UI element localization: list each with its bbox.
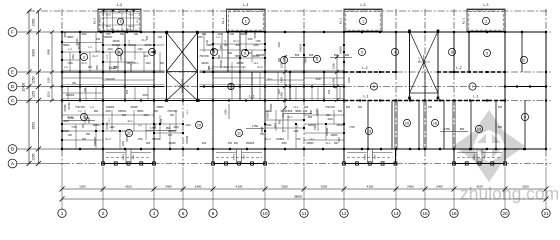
vertical grid line 1 [61,9,63,166]
beam label L-2 d [456,66,461,70]
svg-text:L1-1: L1-1 [108,117,111,122]
bottom dimension line (bays) [60,185,549,192]
svg-text:500: 500 [228,142,233,145]
svg-text:E: E [11,70,14,76]
svg-text:450: 450 [168,134,173,137]
svg-text:9#D06: 9#D06 [78,42,81,50]
svg-text:300: 300 [358,106,363,109]
svg-text:7#B06: 7#B06 [306,56,308,63]
top balcony 2 [221,3,266,31]
svg-text:3: 3 [486,51,488,55]
svg-text:7#B06A: 7#B06A [104,36,113,39]
svg-text:1750: 1750 [444,127,450,131]
svg-text:1150: 1150 [293,130,299,133]
svg-text:1750: 1750 [67,62,73,65]
vertical grid line 18 [453,9,455,166]
svg-text:L-2: L-2 [362,66,367,70]
svg-text:3200: 3200 [522,185,529,189]
svg-text:300: 300 [345,53,350,57]
svg-text:KL-1: KL-1 [221,18,225,25]
grid bubble D [8,82,17,91]
svg-text:L-2: L-2 [456,66,461,70]
svg-text:3000: 3000 [64,32,67,38]
svg-text:5: 5 [244,51,246,55]
svg-text:2#D08: 2#D08 [236,62,244,65]
beam label L-2 a [111,66,116,70]
svg-text:XL-1: XL-1 [133,62,139,65]
grid bubble 11 [300,209,308,217]
svg-text:1500: 1500 [348,77,351,83]
svg-text:L-3: L-3 [361,3,366,7]
svg-text:ZB2: ZB2 [126,89,129,94]
svg-text:11: 11 [237,131,241,135]
svg-text:2#D08: 2#D08 [130,106,138,109]
left dimension line [22,9,42,167]
svg-text:4100: 4100 [236,185,243,189]
watermark text zhulong.com [460,184,559,204]
svg-text:1: 1 [61,211,64,216]
svg-text:8#B06: 8#B06 [64,104,67,112]
svg-text:750X150: 750X150 [199,55,209,58]
svg-text:4100: 4100 [476,185,483,189]
bottom balcony 4 [453,149,507,165]
vertical grid line 4 [153,9,155,166]
svg-text:2400: 2400 [195,185,202,189]
horizontal grid line B [17,148,552,150]
vertical grid line 6 [182,9,184,166]
svg-text:1250: 1250 [47,77,51,83]
vertical grid line 8 [212,9,214,166]
svg-text:950: 950 [498,126,503,129]
svg-text:7B06: 7B06 [128,15,134,17]
svg-text:9: 9 [524,115,526,119]
svg-text:450: 450 [230,33,235,36]
svg-text:ZB2: ZB2 [94,110,99,113]
panel number circle 2 at 524,60 [520,56,527,63]
svg-text:L1-1: L1-1 [310,138,315,141]
small horizontal dims mid band [63,104,468,133]
svg-text:300: 300 [228,52,233,55]
vertical grid line 12 [343,9,345,166]
svg-text:L-2: L-2 [109,65,116,70]
svg-text:XL-1: XL-1 [325,142,331,145]
svg-text:1050: 1050 [281,142,287,145]
panel number circle 3 at 119,52 [115,48,122,55]
svg-text:D06: D06 [144,55,149,58]
grid bubble C [8,96,17,105]
bottom dimension line (total) [60,195,549,202]
svg-text:1150: 1150 [137,48,143,51]
drain symbol on D line [228,83,234,89]
svg-text:KL-3: KL-3 [265,138,271,141]
svg-text:1240: 1240 [133,154,135,160]
panel number circle 5 at 245,53 [241,49,248,56]
svg-text:1050: 1050 [72,54,75,60]
svg-text:L-3: L-3 [484,3,489,7]
svg-text:1240: 1240 [244,154,246,160]
grid bubble 12 [340,209,348,217]
svg-text:2#D08: 2#D08 [112,40,120,43]
svg-text:L-1: L-1 [473,94,478,98]
svg-text:10#D6: 10#D6 [123,153,125,160]
svg-text:1000: 1000 [315,78,321,81]
grid bubble 8 [209,209,217,217]
svg-text:1450: 1450 [332,78,336,84]
svg-text:300: 300 [303,109,308,113]
svg-text:450: 450 [82,123,85,128]
top balcony 1 interior framing [98,10,141,32]
svg-text:950: 950 [154,110,159,113]
svg-text:800: 800 [460,127,465,131]
columns on line F [61,31,547,33]
svg-text:1060: 1060 [197,36,203,39]
exterior wall on line F [62,31,546,33]
svg-text:D06: D06 [304,106,309,109]
svg-text:1240: 1240 [278,89,281,95]
panel number circle 10 at 407,123 [403,119,410,126]
svg-text:ZB2: ZB2 [160,118,163,123]
vertical grid line 11 [303,9,305,166]
svg-text:10#B06: 10#B06 [130,63,133,72]
svg-text:1200: 1200 [32,153,36,161]
svg-text:3200: 3200 [281,185,288,189]
svg-text:1150: 1150 [225,109,228,115]
panel number circle 5 at 362,52 [358,48,365,55]
stairwell 1 (X braces) [165,31,199,102]
svg-text:KL-3: KL-3 [257,66,263,69]
svg-text:10#D6: 10#D6 [364,153,366,160]
svg-text:500: 500 [84,87,87,92]
top balcony 1 [93,3,142,31]
svg-text:1000: 1000 [327,118,333,121]
svg-text:5#B06: 5#B06 [254,31,257,39]
svg-text:950: 950 [86,133,91,136]
svg-text:7#B06A: 7#B06A [118,110,127,113]
right half annotation texts [278,42,503,129]
svg-text:L-3: L-3 [243,3,248,7]
svg-text:13: 13 [477,127,481,131]
svg-text:1240: 1240 [374,154,376,160]
svg-text:16#D06: 16#D06 [106,106,115,109]
svg-text:7B06: 7B06 [105,15,111,17]
svg-text:KL-1: KL-1 [418,57,421,63]
svg-text:500: 500 [154,123,157,128]
svg-text:1750: 1750 [255,40,261,43]
svg-text:750X150: 750X150 [105,78,115,81]
svg-text:10#D6: 10#D6 [474,153,476,160]
vertical grid line 2 [102,9,104,166]
svg-text:ZB2: ZB2 [308,116,313,119]
svg-text:750X150: 750X150 [325,106,335,109]
svg-text:4: 4 [151,50,153,54]
svg-text:1150: 1150 [109,126,115,129]
svg-text:9B06: 9B06 [128,26,134,28]
wall on line C [61,99,506,102]
svg-text:7#B06: 7#B06 [137,110,145,113]
svg-text:1150: 1150 [47,91,51,97]
vertical grid line 14 [395,9,397,166]
svg-text:8#B06: 8#B06 [316,108,319,116]
panel number circle 11 at 239,133 [235,129,242,136]
horizontal grid line D [17,86,552,88]
svg-text:450: 450 [158,36,163,39]
grid bubble 10 [261,209,269,217]
svg-text:150: 150 [96,38,101,41]
grid bubble 4 [150,209,158,217]
svg-text:L1-1: L1-1 [106,54,109,59]
svg-text:KL-3: KL-3 [67,116,73,119]
svg-text:9#D06: 9#D06 [201,62,209,65]
vertical grid line 16 [424,9,426,166]
stairwell 2 (X brace) [408,30,439,100]
svg-text:F: F [11,30,14,36]
bottom balcony 1 [102,149,156,165]
svg-text:L-3: L-3 [117,3,122,7]
svg-text:12400: 12400 [22,83,26,92]
svg-text:11: 11 [302,211,307,216]
svg-text:500: 500 [146,35,149,40]
svg-text:1050: 1050 [247,38,253,41]
interior dim column at x=52 [47,30,55,102]
svg-text:76#D06: 76#D06 [341,45,343,54]
panel number circle 13 at 479,129 [475,125,482,132]
svg-text:8: 8 [212,211,215,216]
svg-text:10#B06: 10#B06 [276,138,285,141]
beam label L-2 c [362,66,367,70]
svg-text:10#B06: 10#B06 [126,133,129,142]
svg-text:8#B06: 8#B06 [157,106,165,109]
svg-text:950: 950 [120,33,125,36]
panel number circle 4 at 214,52 [210,48,217,55]
svg-text:XL-1: XL-1 [267,78,273,81]
svg-text:6: 6 [316,57,318,61]
svg-text:1: 1 [245,19,247,23]
svg-text:1240: 1240 [484,154,486,160]
beam label L-1 b [363,94,368,98]
svg-text:750X150: 750X150 [75,106,85,109]
columns on line B [61,148,547,150]
svg-text:7#B06A: 7#B06A [152,138,161,141]
svg-text:6: 6 [451,50,453,54]
svg-text:1240: 1240 [185,124,191,127]
svg-text:13: 13 [367,129,371,133]
svg-text:1250: 1250 [32,76,36,84]
grid bubble 20 [501,209,509,217]
panel number circle 6 at 317,59 [313,55,320,62]
top balcony 3 [339,3,383,31]
panel number circle 13 at 369,131 [365,127,372,134]
svg-text:8#B06: 8#B06 [207,44,215,47]
svg-text:10#B06: 10#B06 [120,52,123,61]
svg-text:2: 2 [102,211,105,216]
svg-text:4100: 4100 [125,185,132,189]
svg-text:1750: 1750 [295,138,301,141]
panel number circle 16 at 435,123 [431,119,438,126]
svg-text:1: 1 [485,19,487,23]
grid bubble E [8,68,17,77]
svg-text:150: 150 [122,114,127,117]
svg-text:500: 500 [498,106,503,109]
svg-text:1750: 1750 [252,124,258,128]
svg-text:1060: 1060 [81,33,87,36]
svg-text:10#D6: 10#D6 [330,134,338,137]
interior dim column at x=285 [280,55,288,110]
svg-text:950: 950 [88,66,93,69]
panel number circle 4 at 395,52 [391,48,398,55]
circled number on D line a [370,83,377,90]
svg-text:L1-1: L1-1 [186,109,189,114]
svg-text:10: 10 [197,123,201,127]
svg-text:KL-1: KL-1 [93,18,97,25]
svg-text:D06: D06 [146,142,151,145]
horizontal grid line C [17,100,552,102]
svg-text:1050: 1050 [88,118,91,124]
svg-text:3000: 3000 [94,137,97,143]
svg-text:16: 16 [433,121,437,125]
svg-text:2900: 2900 [32,122,36,130]
svg-text:6: 6 [182,211,185,216]
svg-text:2#D08: 2#D08 [168,142,176,145]
svg-text:18: 18 [451,211,457,216]
svg-text:16#D06: 16#D06 [168,130,177,133]
svg-text:1050: 1050 [122,141,125,147]
grid bubble 16 [421,209,429,217]
left half secondary framing [61,33,345,149]
svg-text:150: 150 [282,113,285,118]
vertical grid line 10 [264,9,266,166]
beam label L-2 b [208,66,213,70]
svg-text:150: 150 [218,54,221,59]
svg-text:KL-3: KL-3 [105,138,111,141]
svg-text:1050: 1050 [96,65,99,71]
svg-text:12: 12 [341,211,347,216]
svg-text:5: 5 [361,50,363,54]
svg-text:7#B06A: 7#B06A [128,44,137,47]
svg-text:1: 1 [362,19,364,23]
svg-text:2: 2 [523,58,525,62]
svg-text:4: 4 [394,50,396,54]
horizontal grid line F [17,31,552,33]
svg-text:2#D08: 2#D08 [144,44,152,47]
svg-text:5#B06: 5#B06 [307,142,315,145]
svg-text:KL-1: KL-1 [462,18,466,25]
svg-text:3080: 3080 [32,49,36,57]
svg-text:7#B06: 7#B06 [67,36,75,39]
svg-text:300: 300 [428,106,433,109]
svg-text:1150: 1150 [32,91,36,98]
panel number circle 2 at 84,57 [80,53,87,60]
svg-text:2#D08: 2#D08 [280,110,288,113]
svg-text:9: 9 [83,115,85,119]
panel number circle 4 at 152,52 [148,48,155,55]
svg-text:750X150: 750X150 [167,110,177,113]
bottom balcony 2 [212,149,267,165]
svg-text:10#B06: 10#B06 [186,135,189,144]
circled number on D line b [469,83,476,90]
panel number circle 3 at 487,53 [483,49,490,56]
svg-text:300: 300 [326,114,331,117]
svg-text:1240: 1240 [143,114,149,117]
panel number circle 10 at 199,125 [195,121,202,128]
svg-text:L1-1: L1-1 [294,106,299,109]
panel number circle 9 at 525,117 [521,113,528,120]
svg-text:900: 900 [278,57,281,62]
grid bubble 18 [450,209,458,217]
grid bubble 14 [392,209,400,217]
svg-text:1750: 1750 [137,138,143,141]
panel number circle 6 at 452,52 [448,48,455,55]
svg-text:ZB2: ZB2 [208,65,211,70]
svg-text:16#D06: 16#D06 [112,44,121,47]
interior vertical walls [62,32,546,149]
svg-text:14: 14 [393,211,399,216]
grid bubble A [8,159,17,168]
svg-text:C: C [11,98,15,104]
svg-text:KL-1: KL-1 [339,18,343,25]
svg-text:76#D06: 76#D06 [301,43,303,52]
svg-text:900: 900 [234,142,239,145]
svg-text:20: 20 [502,211,508,216]
small horizontal dims near line 11 [290,53,352,58]
svg-text:5#B06: 5#B06 [63,130,71,133]
svg-text:D06: D06 [202,142,207,145]
svg-text:1450: 1450 [280,77,284,83]
svg-text:3200: 3200 [321,185,328,189]
beam on line D [61,85,547,88]
svg-text:900: 900 [160,62,165,65]
svg-text:16: 16 [422,211,428,216]
top balcony 4 [462,3,506,31]
grid bubble B [8,145,17,154]
svg-text:7#B06: 7#B06 [63,44,71,47]
svg-text:7: 7 [471,85,473,89]
horizontal grid line A [17,163,552,165]
svg-text:300: 300 [134,33,139,36]
svg-text:KL-3: KL-3 [92,55,98,58]
beam label L-1 c [473,94,478,98]
svg-text:7#B06: 7#B06 [295,110,303,113]
svg-text:300: 300 [68,134,73,137]
svg-text:1000: 1000 [63,120,69,123]
svg-text:300: 300 [309,53,314,57]
svg-text:16#D06: 16#D06 [308,124,317,127]
svg-text:900: 900 [224,44,229,47]
svg-text:10#D6: 10#D6 [240,33,248,36]
svg-text:XL-1: XL-1 [127,120,133,123]
svg-text:10: 10 [405,121,409,125]
svg-text:2400: 2400 [407,185,414,189]
beam label L-2 bay2 [109,65,116,70]
grid bubble F [8,28,17,37]
svg-text:300: 300 [170,114,175,117]
grid bubble 2 [99,209,107,217]
svg-text:1: 1 [120,20,122,24]
svg-text:450: 450 [328,89,331,94]
svg-text:950: 950 [220,44,223,49]
svg-text:7B06: 7B06 [105,26,111,28]
grid bubble 1 [58,209,66,217]
bottom balcony 3 [343,149,398,165]
svg-text:9#D06: 9#D06 [252,55,260,58]
svg-text:500: 500 [288,109,293,113]
svg-text:10#D6: 10#D6 [234,153,236,160]
svg-text:1240: 1240 [107,48,113,51]
svg-text:9: 9 [373,85,375,89]
svg-text:D06: D06 [202,33,207,36]
svg-text:1000: 1000 [142,94,148,97]
svg-text:XL-1: XL-1 [287,116,293,119]
vertical grid line 20 [504,9,506,166]
